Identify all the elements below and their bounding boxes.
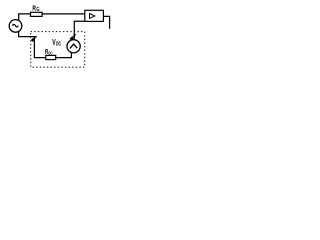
resistor RDC xyxy=(46,55,56,59)
background xyxy=(0,0,114,75)
wire amp lower input to meter xyxy=(74,21,85,40)
svg-text:DC: DC xyxy=(48,51,53,57)
wire amp output xyxy=(103,16,109,28)
wire top rail xyxy=(19,14,85,21)
slash arrow on left wire xyxy=(32,36,37,41)
svg-text:DC: DC xyxy=(56,42,61,48)
dashed instrument box xyxy=(31,32,85,68)
wire RDC to meter xyxy=(56,52,72,58)
wire source bottom to RDC xyxy=(19,31,46,57)
op-amp U1 xyxy=(85,10,104,21)
resistor RG xyxy=(31,12,43,16)
source V1 xyxy=(9,20,22,33)
meter M1 xyxy=(67,40,80,53)
slash arrow on right wire xyxy=(71,34,76,40)
svg-text:G: G xyxy=(36,7,39,13)
